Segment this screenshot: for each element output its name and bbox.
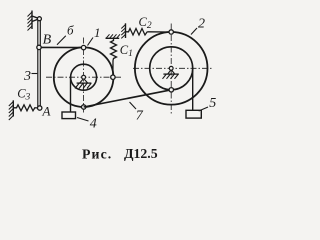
- spring C2: [126, 29, 148, 36]
- svg-text:Д12.5: Д12.5: [124, 146, 158, 161]
- weight 4: [62, 112, 76, 119]
- wheel 1 fixed support: [75, 79, 91, 89]
- wheel 2 inner circle: [150, 47, 193, 90]
- wheel 2 outer circle: [135, 32, 208, 105]
- weight 5: [186, 110, 201, 118]
- link 6: [41, 46, 81, 48]
- svg-text:7: 7: [136, 108, 144, 123]
- svg-text:б: б: [67, 22, 74, 37]
- svg-text:A: A: [42, 104, 51, 119]
- cord 7 between wheel 1 and wheel 2: [84, 90, 172, 107]
- cord from wheel 2 inner rim to weight 5: [192, 68, 194, 110]
- svg-text:1: 1: [94, 25, 101, 40]
- cord from wheel 1 hub to weight 4: [70, 77, 72, 112]
- spring C1: [111, 38, 117, 60]
- pin at top of rod 3: [37, 17, 41, 21]
- wall anchor for spring C2: [121, 23, 125, 38]
- node at right of wheel 1: [111, 75, 115, 79]
- wheel 2 fixed support: [163, 70, 179, 79]
- svg-text:B: B: [43, 32, 52, 47]
- svg-text:2: 2: [198, 17, 205, 32]
- wheel 1 axle pivot: [82, 75, 86, 79]
- wheel 2 centerlines: [133, 24, 214, 115]
- ceiling anchor for spring C1: [106, 34, 121, 38]
- wheel 1 outer circle: [54, 47, 114, 107]
- node at top of wheel 2: [169, 30, 173, 34]
- svg-text:5: 5: [209, 96, 216, 111]
- svg-text:3: 3: [23, 69, 31, 84]
- wall anchor top-left: [28, 11, 40, 31]
- node at top of wheel 1: [81, 45, 85, 49]
- wall anchor for spring C3: [9, 100, 14, 120]
- svg-text:4: 4: [90, 117, 97, 132]
- node at bottom of wheel 1: [82, 105, 86, 109]
- wire from spring C2 to wheel 2 top node: [147, 31, 169, 33]
- wheel 2 axle pivot: [169, 66, 173, 70]
- node at bottom of wheel 2 inner rim: [169, 88, 173, 92]
- svg-text:Рис.: Рис.: [82, 147, 112, 162]
- wire from spring C1 to wheel 1 rim: [112, 61, 114, 76]
- spring C3: [13, 105, 37, 111]
- node B: [37, 45, 41, 49]
- wheel 1 centerlines: [46, 38, 121, 114]
- node A: [38, 106, 42, 110]
- rod 3: [38, 21, 41, 108]
- wheel 1 inner circle: [71, 64, 97, 90]
